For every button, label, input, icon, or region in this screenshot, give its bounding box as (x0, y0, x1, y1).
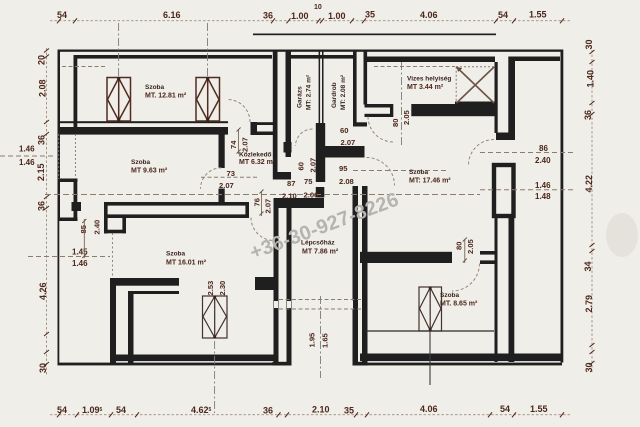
wall: bottom south wall thick west part (111, 355, 277, 362)
wall: szoba 16.01 west wall inner line (128, 291, 134, 364)
wall: central thick bar below gardrob (316, 123, 325, 182)
svg-text:2.08: 2.08 (38, 79, 48, 97)
interior dim line 76/2.07 door (261, 191, 263, 216)
svg-text:85: 85 (79, 224, 88, 233)
wall: szoba 8.65 north wall east piece bottom line (480, 260, 496, 264)
dashed level line right 86/2.40 (480, 152, 576, 154)
roof window W2 diamond (197, 78, 220, 121)
dashed line in szoba 17.46 (353, 170, 447, 172)
svg-text:1.00: 1.00 (291, 11, 309, 21)
thin roof line in szoba 8.65 (366, 330, 494, 332)
svg-text:2.07: 2.07 (264, 199, 273, 214)
svg-text:36: 36 (583, 110, 593, 120)
centerline window W4 upper (429, 287, 431, 330)
wall: top inner line (wet room) (364, 57, 495, 63)
svg-text:MT: 17.46 m²: MT: 17.46 m² (409, 178, 451, 185)
wall: east wall pair inner line lower (509, 216, 515, 362)
svg-text:73: 73 (227, 169, 235, 178)
svg-text:1.00: 1.00 (328, 11, 346, 21)
svg-text:80: 80 (455, 242, 464, 250)
roof window W1 frame (107, 78, 131, 122)
centerline window W4 lower solid (429, 330, 431, 385)
svg-text:MT 9.63 m²: MT 9.63 m² (131, 168, 168, 175)
svg-text:2.07: 2.07 (241, 137, 250, 152)
svg-text:54: 54 (498, 10, 508, 20)
svg-text:54: 54 (57, 10, 67, 20)
wall: bottom outer line west (58, 363, 278, 366)
wall: szoba 17.46 west wall upper left line (353, 50, 357, 123)
roof window W1 diamond (108, 78, 131, 121)
dotted lines in left wall window opening (58, 134, 60, 179)
svg-text:Szoba: Szoba (409, 169, 429, 176)
svg-text:2.05: 2.05 (466, 238, 475, 254)
svg-text:54: 54 (116, 405, 126, 415)
wall: corridor column right line (286, 51, 292, 157)
wall: left eaves line lower (58, 221, 60, 365)
svg-text:2.05: 2.05 (402, 109, 411, 125)
wall: corridor column cap west (251, 122, 258, 135)
dotted line left niche (112, 233, 114, 278)
wall: chimney notch bottom (104, 230, 126, 234)
dashed level line across plan (45, 194, 480, 196)
svg-text:Vizes helyiség: Vizes helyiség (407, 76, 451, 83)
wall: szoba 17.46 west wall upper right line (364, 50, 368, 105)
wall: top inner line (right room) (511, 57, 560, 62)
stair hall: left wall inner line (287, 208, 292, 366)
roof window W3 diamond (203, 297, 227, 338)
svg-text:4.26: 4.26 (38, 282, 48, 300)
svg-text:1.46: 1.46 (535, 181, 551, 190)
wall: room 12.81 bottom thin line (58, 121, 229, 123)
wall: wet room south wall west segment bottom line (365, 114, 394, 117)
svg-text:30: 30 (584, 362, 594, 372)
svg-text:MT 3.44 m²: MT 3.44 m² (407, 84, 444, 91)
svg-text:2.79: 2.79 (584, 295, 594, 313)
svg-text:1.65: 1.65 (321, 332, 330, 348)
svg-text:2.08: 2.08 (339, 177, 354, 186)
wall: corridor column bar top line (253, 122, 274, 125)
svg-text:35: 35 (344, 406, 354, 416)
svg-text:36: 36 (263, 406, 273, 416)
svg-text:10: 10 (314, 4, 322, 11)
door arc gardrob (296, 129, 313, 146)
stair dashed line lower (279, 308, 362, 310)
wall pillar on left wall (72, 202, 82, 211)
svg-text:20: 20 (37, 55, 47, 65)
svg-text:1.48: 1.48 (535, 192, 551, 201)
svg-text:MT: 2.08 m²: MT: 2.08 m² (340, 74, 347, 110)
wall: szoba 8.65 north wall east piece top line (480, 251, 496, 255)
wall: gardrob bottom wall (325, 146, 365, 158)
svg-text:2.15: 2.15 (36, 163, 46, 181)
svg-text:60: 60 (297, 162, 306, 170)
wet room skylight arrowhead (456, 67, 462, 72)
scan smudge right (606, 213, 638, 257)
centerline window W2 (207, 23, 209, 121)
door arc szoba 9.63 (201, 168, 222, 189)
wall: right room west wall foot (496, 133, 515, 141)
svg-text:76: 76 (253, 198, 262, 206)
interior dim line 85/2.40 niche (83, 219, 85, 258)
svg-text:2.10: 2.10 (312, 405, 330, 415)
stair dashed line upper (279, 299, 362, 301)
dashed line under label 73 (201, 176, 257, 178)
wall: szoba 9.63 south wall right cap (245, 202, 249, 218)
centerline stair opening (320, 296, 322, 378)
wall: bottom south wall thick east part (360, 354, 562, 362)
stairwell wall white notch left outer (274, 301, 278, 308)
door arc szoba 8.65 (80) (452, 264, 480, 292)
wall: corridor west jamb stub upper (219, 127, 225, 168)
svg-text:Szoba: Szoba (131, 159, 151, 166)
centerline window W1 (118, 23, 120, 121)
window symbol in east wall: frame (494, 165, 514, 216)
svg-text:2.40: 2.40 (535, 156, 551, 165)
svg-text:86: 86 (539, 144, 548, 153)
wall: left exterior outer line upper (58, 50, 61, 222)
wall: corridor west jamb stub lower (219, 189, 225, 204)
wall: szoba 17.46 west wall lower outer line (353, 186, 359, 366)
svg-text:54: 54 (500, 404, 510, 414)
window vertex dots (117, 77, 120, 80)
svg-text:35: 35 (365, 10, 375, 20)
svg-text:2.40: 2.40 (93, 220, 102, 235)
svg-text:1.46: 1.46 (19, 158, 35, 167)
svg-text:2.10: 2.10 (282, 192, 297, 201)
roof window W2 frame (196, 78, 220, 122)
svg-text:4.06: 4.06 (420, 10, 438, 20)
svg-text:MT. 12.81 m²: MT. 12.81 m² (145, 93, 187, 100)
dashed level line right 1.46/1.48 (480, 189, 576, 191)
svg-text:87: 87 (287, 179, 295, 188)
wall: right room west wall thick upper (508, 57, 515, 134)
wall: corridor column door jamb (284, 142, 292, 153)
wall: room 12.81 bottom thick line (58, 127, 229, 135)
svg-text:1.55: 1.55 (530, 404, 548, 414)
bottom dimension ticks (57, 412, 564, 417)
wall: corridor column bottom cap (273, 172, 291, 180)
wet room skylight bottom edge (455, 102, 495, 106)
svg-text:75: 75 (304, 177, 313, 186)
wall: wet room south wall west segment top line (365, 104, 394, 108)
top dimension ticks (57, 18, 564, 23)
svg-text:1.46: 1.46 (72, 259, 88, 268)
wet room skylight dotted top edge (456, 66, 495, 68)
svg-text:2.07: 2.07 (219, 181, 234, 190)
wall: szoba 17.46 west wall lower inner line (362, 186, 368, 366)
eaves line above top wall (253, 34, 496, 36)
centerline window W3 (214, 296, 216, 413)
svg-text:Közlekedő: Közlekedő (239, 152, 272, 159)
svg-text:4.06: 4.06 (420, 404, 438, 414)
wall: szoba 17.46 west wall upper cap (353, 122, 367, 126)
svg-text:30: 30 (584, 39, 594, 49)
wall: szoba 9.63 south wall bottom line (104, 214, 249, 218)
top dimension chain line (50, 20, 570, 22)
svg-text:1.095: 1.095 (82, 405, 103, 415)
svg-text:2.53: 2.53 (206, 281, 215, 296)
roof window W3 frame (203, 296, 228, 338)
svg-text:4.625: 4.625 (191, 405, 212, 415)
svg-text:74: 74 (229, 140, 238, 149)
svg-text:Szoba: Szoba (440, 292, 460, 299)
svg-text:Gardrob: Gardrob (331, 82, 338, 108)
wet room skylight X diagonals (457, 67, 495, 103)
svg-text:36: 36 (263, 11, 273, 21)
wall: left window sill bar bottom (58, 179, 78, 183)
svg-text:MT. 8.65 m²: MT. 8.65 m² (440, 301, 478, 308)
svg-text:4.22: 4.22 (584, 175, 594, 193)
dashed knee line in room 12.81 (62, 66, 106, 68)
roof window W4 diamond (420, 288, 442, 331)
wet room skylight dotted left edge (455, 67, 457, 103)
right dimension ticks (590, 50, 595, 365)
svg-text:95: 95 (339, 164, 348, 173)
svg-text:MT 6.32 m²: MT 6.32 m² (239, 159, 276, 166)
wall: left exterior bottom cap (58, 218, 78, 222)
svg-text:2.07: 2.07 (309, 158, 318, 173)
svg-text:2.07: 2.07 (341, 138, 356, 147)
wall: east wall pair outer line lower (495, 216, 498, 362)
svg-text:6.16: 6.16 (163, 10, 181, 20)
wall: corridor column bar bottom line (253, 132, 274, 136)
svg-text:1.95: 1.95 (308, 332, 317, 348)
wall: wet room south wall west cap (390, 104, 393, 117)
wall: top exterior inner line (room 12.81) (74, 55, 272, 59)
stair hall: top wall (274, 198, 325, 208)
door arc room 12.81 (228, 100, 251, 123)
bottom dimension chain line (50, 414, 570, 416)
svg-text:34: 34 (583, 261, 593, 271)
svg-text:36: 36 (37, 201, 47, 211)
wall: wet room east thin line (495, 62, 498, 133)
svg-text:30: 30 (38, 363, 48, 373)
wall: szoba 8.65 north wall (360, 252, 452, 263)
svg-text:1.55: 1.55 (529, 10, 547, 20)
wall: chimney stub in szoba 16.01 (255, 277, 274, 290)
wall: top exterior outer line (58, 50, 563, 52)
centerline top door 80 (401, 62, 403, 145)
right dimension chain line (591, 50, 593, 374)
interior dim line 74/2.07 door (238, 129, 240, 154)
roof window W4 frame (419, 287, 442, 331)
dashed level line bottom-left 1.45/1.46 (28, 256, 110, 258)
svg-text:Garázs: Garázs (297, 86, 304, 108)
svg-text:2.30: 2.30 (218, 281, 227, 296)
wall: left exterior inner line lower (74, 179, 78, 221)
wall: bottom outer line east (360, 363, 562, 366)
svg-text:Szoba: Szoba (166, 251, 186, 258)
wall: stair door pin (316, 187, 325, 198)
svg-text:54: 54 (57, 405, 67, 415)
stair hall: left wall outer line (274, 208, 279, 366)
door arc szoba 17.46 west (95) (367, 158, 395, 186)
wall: garage/gardrob thin partition left line (319, 51, 321, 123)
door arc szoba 17.46 top (80) (368, 117, 394, 143)
svg-text:MT 7.86 m²: MT 7.86 m² (302, 249, 339, 256)
wall: garage/gardrob thin partition right line (322, 51, 324, 123)
wall: chimney notch right (122, 218, 126, 233)
stair hall: left wall bottom cap (273, 362, 292, 366)
wall: right exterior line (561, 50, 564, 363)
left dimension ticks (44, 49, 49, 367)
svg-text:2.06: 2.06 (304, 191, 319, 200)
wall: szoba 9.63 south wall top line (104, 202, 249, 206)
wall: top inner line (garage strip) (291, 55, 353, 59)
left dimension chain line (46, 48, 48, 376)
stairwell wall white notch right (349, 301, 354, 309)
svg-text:60: 60 (340, 126, 348, 135)
wall: szoba 16.01 west wall outer line (110, 278, 116, 364)
wall: szoba 16.01 north wall inner line (128, 291, 179, 294)
wall: szoba 9.63 south wall left cap (104, 202, 108, 234)
svg-text:1.40: 1.40 (586, 70, 596, 88)
wall: left exterior inner line (74, 55, 78, 135)
dashed level line left margin 1.46 (0, 155, 56, 157)
wall: wet room south wall east segment (411, 104, 495, 116)
wall: szoba 16.01 north wall thick (111, 278, 179, 286)
stairwell wall white notch left inner (287, 301, 291, 308)
svg-text:36: 36 (37, 135, 47, 145)
wall: corridor column left line (273, 51, 278, 172)
svg-text:MT: 2.74 m²: MT: 2.74 m² (306, 74, 313, 110)
svg-text:1.46: 1.46 (19, 145, 35, 154)
dashed arrow line in wet room (374, 66, 455, 68)
svg-text:MT 16.01 m²: MT 16.01 m² (166, 260, 207, 267)
svg-text:80: 80 (391, 119, 400, 127)
svg-text:Szoba: Szoba (145, 84, 165, 91)
stair hall: right wall bottom cap (353, 362, 368, 366)
door arc szoba 16.01 (76) (251, 218, 274, 241)
door arc szoba 17.46 east (86) (469, 140, 495, 166)
interior dim line 80/2.05 door szoba 8.65 (464, 239, 466, 263)
